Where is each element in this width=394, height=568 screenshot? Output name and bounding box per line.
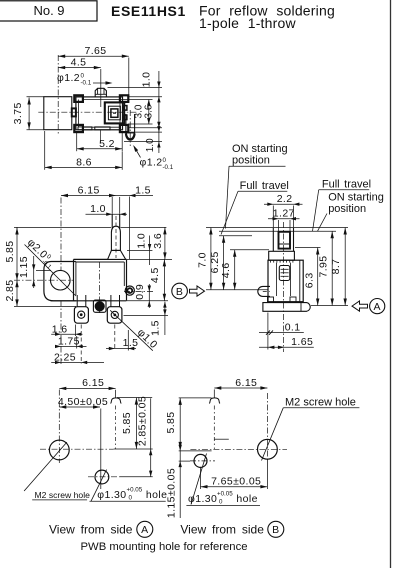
view B M2 leader slash [262,408,284,461]
svg-text:φ1.30: φ1.30 [188,493,217,505]
svg-text:1.0: 1.0 [145,138,156,152]
view A small hole leader slash [91,470,107,502]
front view side button circle [125,286,134,295]
view B small hole leader slash [191,454,207,505]
side view stem [272,228,274,252]
side view top reference line (free position) [206,227,348,229]
svg-text:-0.1: -0.1 [81,80,92,87]
svg-text:1.5: 1.5 [150,320,162,336]
svg-text:1.0: 1.0 [141,72,153,88]
svg-text:M2 screw hole: M2 screw hole [285,397,356,409]
side view body top extension right [295,247,321,249]
svg-text:6.3: 6.3 [303,272,315,288]
front view top reference line [14,226,111,228]
svg-text:ESE11HS1: ESE11HS1 [111,3,186,19]
top view actuator button middle [108,106,120,120]
svg-text:1.5: 1.5 [123,337,139,349]
top view lever bump [72,108,76,116]
svg-text:0: 0 [163,157,167,164]
side view serration [270,260,272,262]
front view right terminal [110,295,112,307]
side view stub bottom line [311,305,348,307]
view A reference line top [117,397,152,399]
page right border [390,0,392,568]
front view stem [111,214,113,228]
top view terminal pad bottom-right [120,125,128,132]
svg-text:6.15: 6.15 [235,377,257,389]
svg-text:position: position [232,154,270,166]
svg-text:-0.1: -0.1 [40,258,53,271]
view direction marker A [370,299,385,314]
svg-text:hole: hole [236,493,257,505]
svg-text:8.6: 8.6 [76,156,92,168]
svg-text:Full travel: Full travel [322,179,371,191]
svg-text:7.65±0.05: 7.65±0.05 [211,475,261,487]
front view phi1.0 leader slash [110,310,153,350]
svg-text:6.15: 6.15 [78,184,100,196]
front view lever housing [44,262,76,301]
front view stem flare [108,250,126,259]
svg-text:0: 0 [129,494,133,501]
view B reference line top [179,397,212,399]
side view bottom plate [263,303,310,312]
svg-text:0.1: 0.1 [285,321,301,333]
side view PCB line [206,289,268,291]
svg-text:1.0: 1.0 [90,203,106,215]
svg-text:1.6: 1.6 [52,323,68,335]
svg-text:1.27: 1.27 [273,208,295,220]
front view body center line [99,262,101,313]
svg-text:1.15: 1.15 [18,256,30,278]
svg-text:φ1.2: φ1.2 [140,157,163,169]
front view phi2.0 label [23,237,58,272]
top view body outline [76,97,123,130]
svg-text:1.5: 1.5 [135,184,151,196]
view B small hole circle [194,454,207,467]
svg-text:φ1.30: φ1.30 [97,489,126,501]
svg-text:7.0: 7.0 [196,252,208,268]
side view body outline [268,260,303,302]
svg-text:+0.05: +0.05 [127,487,143,494]
view A centerline curl [111,398,122,404]
svg-text:2.85: 2.85 [4,279,16,301]
svg-text:8.7: 8.7 [330,259,342,275]
view direction marker B [172,283,188,299]
side view boss [269,251,295,260]
header box No. 9 [0,1,97,21]
top view actuator button outer [105,102,124,123]
svg-text:5.2: 5.2 [99,138,115,150]
svg-text:3.75: 3.75 [12,102,24,124]
svg-text:ON starting: ON starting [328,192,384,204]
svg-text:5.85: 5.85 [4,240,16,262]
svg-text:-0.1: -0.1 [163,164,174,171]
top view terminal pad bottom-left [74,125,83,132]
svg-text:5.85: 5.85 [165,411,177,433]
svg-text:1-pole 1-throw: 1-pole 1-throw [199,15,296,31]
svg-text:φ1.2: φ1.2 [57,72,80,84]
svg-text:2.85±0.05: 2.85±0.05 [137,396,149,446]
svg-text:Full travel: Full travel [240,180,289,192]
svg-text:hole: hole [146,489,167,501]
side view full travel line [219,235,252,237]
svg-text:View from side: View from side [180,523,264,537]
svg-text:A: A [141,524,148,536]
top view bottom tabs [78,127,92,130]
side view body top extension left [230,249,269,251]
front view body outline [74,258,108,260]
svg-text:3.6: 3.6 [152,233,164,249]
svg-text:5.85: 5.85 [121,412,133,434]
svg-text:6.15: 6.15 [82,377,104,389]
svg-text:4.5: 4.5 [71,57,87,69]
svg-text:4.6: 4.6 [220,262,232,278]
svg-text:View from side: View from side [49,523,133,537]
svg-text:0: 0 [81,73,85,80]
front view dim extension lines bottom [60,301,62,365]
view B M2 screw hole circle [258,439,278,459]
svg-text:M2 screw hole: M2 screw hole [35,490,91,500]
svg-text:+0.05: +0.05 [217,491,233,498]
side view bottom feet [268,297,274,303]
svg-text:B: B [176,286,183,298]
view A M2 leader slash [24,442,67,491]
top view button side tabs [124,106,127,111]
svg-text:ON starting: ON starting [232,143,288,155]
front view center line lever [14,279,74,281]
top view stem centerline tick [100,131,102,144]
side view stem center line [282,222,284,352]
top view lever block [44,97,72,130]
top view terminal pad top-right [120,95,128,102]
view A small hole circle [95,470,109,484]
top view body inner lines [83,99,120,101]
svg-text:position: position [328,203,366,215]
front view lever pivot circle dia 2.0 [51,270,71,290]
view A horizontal reference lines [114,448,153,450]
svg-text:1.0: 1.0 [136,233,148,249]
top view top stem (plunger) [95,88,106,97]
svg-text:1.15±0.05: 1.15±0.05 [165,468,177,518]
svg-text:0: 0 [219,498,223,505]
top view terminal pad top-left [74,95,83,102]
svg-text:1.75: 1.75 [58,336,80,348]
front view phi2.0 leader slash [25,245,77,297]
svg-text:6.25: 6.25 [209,251,221,273]
svg-text:No. 9: No. 9 [33,3,64,18]
svg-text:1.65: 1.65 [291,336,313,348]
svg-text:B: B [272,524,279,536]
side view inner window [279,266,290,281]
view B centerline curl [209,398,220,404]
svg-text:4.5: 4.5 [149,267,161,283]
svg-text:PWB mounting hole for referenc: PWB mounting hole for reference [81,541,248,553]
front view left terminal [76,295,78,307]
view A M2 screw hole circle [49,440,69,460]
front view center terminal [93,300,106,312]
top view center lines [57,55,59,135]
svg-text:A: A [373,301,380,313]
front view phi1.0 label [135,327,160,352]
top view side stem (right) [126,114,135,140]
svg-text:7.65: 7.65 [84,45,106,57]
side view left stub [258,286,270,296]
svg-text:2.2: 2.2 [277,193,293,205]
view B horizontal center line [190,448,287,450]
svg-text:7.95: 7.95 [317,255,329,277]
top view actuator button inner [111,109,118,117]
side view ON position line [219,230,336,232]
